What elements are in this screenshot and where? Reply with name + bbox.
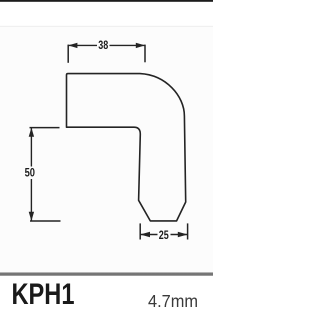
svg-text:38: 38 xyxy=(98,38,108,52)
svg-text:25: 25 xyxy=(159,228,169,242)
svg-text:50: 50 xyxy=(25,166,36,180)
svg-text:KPH1: KPH1 xyxy=(12,278,75,311)
svg-text:4.7mm: 4.7mm xyxy=(148,291,198,311)
